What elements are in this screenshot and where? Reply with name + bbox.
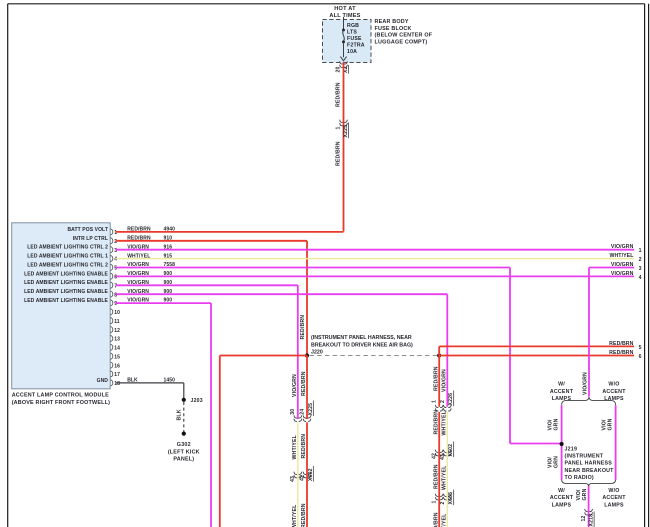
svg-text:HOT AT: HOT AT xyxy=(334,6,356,12)
svg-text:5: 5 xyxy=(639,345,642,351)
svg-text:LAMPS: LAMPS xyxy=(552,396,572,402)
svg-text:LAMPS: LAMPS xyxy=(604,502,624,508)
svg-text:(INSTRUMENT PANEL HARNESS, NEA: (INSTRUMENT PANEL HARNESS, NEAR xyxy=(311,335,412,341)
wire RED/BRN down from J220 xyxy=(306,356,308,420)
junction J220 xyxy=(305,353,309,357)
svg-text:VIO/GRN: VIO/GRN xyxy=(611,244,634,250)
svg-text:G302: G302 xyxy=(177,442,191,448)
wire pin4 WHT/YEL 915 xyxy=(116,258,635,260)
svg-text:LTS: LTS xyxy=(347,30,357,36)
svg-text:RED/BRN: RED/BRN xyxy=(301,371,307,396)
wire RED/BRN below X225 xyxy=(306,422,308,527)
svg-text:PANEL): PANEL) xyxy=(173,457,194,463)
svg-text:RED/BRN: RED/BRN xyxy=(433,410,439,435)
svg-text:TO RADIO): TO RADIO) xyxy=(565,475,594,481)
module pin 12 xyxy=(110,327,112,333)
svg-text:16: 16 xyxy=(114,363,120,369)
svg-text:RED/BRN: RED/BRN xyxy=(336,141,342,166)
svg-text:WHT/YEL: WHT/YEL xyxy=(442,410,448,435)
svg-text:W/O: W/O xyxy=(608,488,619,494)
wire VIO/GRN merged xyxy=(588,486,590,527)
svg-text:1: 1 xyxy=(432,400,438,403)
wire VIO/GRN to split xyxy=(589,267,634,269)
svg-text:W/O: W/O xyxy=(608,382,619,388)
svg-text:WHT/YEL: WHT/YEL xyxy=(609,253,634,259)
split brace upper xyxy=(562,397,616,405)
wire into fuse xyxy=(343,17,345,29)
border frame right outer xyxy=(648,4,650,527)
module pin 17 xyxy=(110,371,112,377)
svg-text:24: 24 xyxy=(299,409,305,415)
svg-text:W/: W/ xyxy=(558,488,565,494)
border frame right inner xyxy=(644,4,646,527)
wire RED/BRN down right xyxy=(438,356,440,407)
svg-text:X225: X225 xyxy=(308,403,314,416)
svg-text:LAMPS: LAMPS xyxy=(552,502,572,508)
svg-text:WHT/YEL: WHT/YEL xyxy=(442,513,448,527)
svg-text:ACCENT: ACCENT xyxy=(602,495,626,501)
junction on RED/BRN xyxy=(437,353,441,357)
svg-text:1: 1 xyxy=(432,500,438,503)
svg-text:VIO/GRN: VIO/GRN xyxy=(582,372,588,395)
svg-text:LED AMBIENT LIGHTING ENABLE: LED AMBIENT LIGHTING ENABLE xyxy=(24,271,108,277)
svg-text:ACCENT: ACCENT xyxy=(550,389,574,395)
svg-text:REAR BODY: REAR BODY xyxy=(375,19,409,25)
wire RED/BRN left arm xyxy=(220,355,307,357)
module pin 13 xyxy=(110,335,112,341)
svg-text:LED AMBIENT LIGHTING ENABLE: LED AMBIENT LIGHTING ENABLE xyxy=(24,289,108,295)
svg-text:8: 8 xyxy=(114,292,117,298)
svg-text:GND: GND xyxy=(97,378,109,384)
wire pin8 VIO/GRN 900 xyxy=(116,293,448,295)
fuse output arrow xyxy=(340,57,346,61)
svg-text:18: 18 xyxy=(114,381,120,387)
svg-text:13: 13 xyxy=(114,337,120,343)
svg-text:NEAR BREAKOUT: NEAR BREAKOUT xyxy=(565,468,615,474)
fuse F2TRA symbol xyxy=(342,29,345,32)
svg-text:BATT POS VOLT: BATT POS VOLT xyxy=(67,227,108,233)
svg-text:FUSE: FUSE xyxy=(347,36,362,42)
svg-text:RED/BRN: RED/BRN xyxy=(336,82,342,107)
svg-text:LED AMBIENT LIGHTING ENABLE: LED AMBIENT LIGHTING ENABLE xyxy=(24,298,108,304)
wire RED/BRN below X226 xyxy=(438,412,440,527)
wire pin1 RED/BRN 4940 xyxy=(116,231,344,233)
svg-text:J203: J203 xyxy=(191,398,203,404)
svg-text:3: 3 xyxy=(639,266,642,272)
svg-text:(LEFT KICK: (LEFT KICK xyxy=(168,449,200,455)
svg-text:J219: J219 xyxy=(565,446,578,452)
svg-text:20: 20 xyxy=(336,66,342,72)
wire RED/BRN from fuse xyxy=(343,62,345,231)
svg-text:1: 1 xyxy=(336,126,342,129)
wire VIO/GRN w/ accent branch xyxy=(561,405,563,480)
svg-text:ALL TIMES: ALL TIMES xyxy=(329,13,360,19)
svg-text:LED AMBIENT LIGHTING ENABLE: LED AMBIENT LIGHTING ENABLE xyxy=(24,280,108,286)
wire pin18 BLK 1450 xyxy=(116,382,184,384)
svg-text:RED/BRN: RED/BRN xyxy=(433,512,439,527)
svg-text:RED/BRN: RED/BRN xyxy=(433,366,439,391)
svg-text:X225: X225 xyxy=(343,125,349,138)
module pin 10 xyxy=(110,309,112,315)
svg-text:(INSTRUMENT: (INSTRUMENT xyxy=(565,454,604,460)
svg-text:J220: J220 xyxy=(311,350,323,356)
svg-text:X218: X218 xyxy=(589,514,595,527)
svg-text:VIO/GRN: VIO/GRN xyxy=(442,369,448,392)
wire BLK dashed to ground xyxy=(183,402,185,432)
svg-text:BLK: BLK xyxy=(177,409,183,420)
svg-text:INTR LP CTRL: INTR LP CTRL xyxy=(73,236,108,242)
junction J219 xyxy=(560,442,564,446)
ground G302 xyxy=(182,432,186,436)
border frame top xyxy=(8,3,645,5)
svg-text:1: 1 xyxy=(639,248,642,254)
svg-text:12: 12 xyxy=(581,515,587,521)
svg-text:VIO/GRN: VIO/GRN xyxy=(292,374,298,397)
svg-text:WHT/YEL: WHT/YEL xyxy=(292,434,298,459)
svg-text:GRN: GRN xyxy=(553,418,559,430)
svg-text:14: 14 xyxy=(114,346,120,352)
connector X602 right xyxy=(435,450,438,453)
module pin 14 xyxy=(110,344,112,350)
svg-text:X605: X605 xyxy=(448,492,454,505)
svg-text:2: 2 xyxy=(440,400,446,403)
svg-text:12: 12 xyxy=(114,328,120,334)
svg-text:17: 17 xyxy=(114,372,120,378)
wire pin2 RED/BRN 910 xyxy=(116,240,308,242)
svg-text:11: 11 xyxy=(114,319,120,325)
svg-text:VIO/GRN: VIO/GRN xyxy=(611,271,634,277)
svg-text:10: 10 xyxy=(114,310,120,316)
border frame left xyxy=(7,4,9,527)
svg-text:2: 2 xyxy=(114,239,117,245)
svg-text:RED/BRN: RED/BRN xyxy=(301,503,307,527)
svg-text:RED/BRN: RED/BRN xyxy=(300,315,306,340)
wire pin5 VIO/GRN 7558 xyxy=(116,267,511,269)
svg-text:LUGGAGE COMPT): LUGGAGE COMPT) xyxy=(375,39,428,45)
svg-text:RGB: RGB xyxy=(347,23,359,29)
wire WHT/YEL below X225 xyxy=(297,422,299,527)
svg-text:GRN: GRN xyxy=(607,418,613,430)
junction J203 xyxy=(182,398,186,402)
wire RED/BRN row6 xyxy=(439,355,634,357)
svg-text:RED/BRN: RED/BRN xyxy=(301,434,307,459)
svg-text:LED AMBIENT LIGHTING CTRL 2: LED AMBIENT LIGHTING CTRL 2 xyxy=(27,262,108,268)
connector X226 xyxy=(435,405,438,408)
svg-text:6: 6 xyxy=(114,275,117,281)
wire pin7 VIO/GRN 900 xyxy=(116,284,298,286)
svg-text:4: 4 xyxy=(114,257,117,263)
svg-text:W/: W/ xyxy=(558,382,565,388)
svg-text:X226: X226 xyxy=(448,393,454,406)
svg-text:3: 3 xyxy=(114,248,117,254)
wire pin3 VIO/GRN 916 xyxy=(116,249,635,251)
svg-text:LED AMBIENT LIGHTING CTRL 1: LED AMBIENT LIGHTING CTRL 1 xyxy=(27,254,108,260)
svg-text:4: 4 xyxy=(639,275,642,281)
accent lamp control module box xyxy=(12,223,111,389)
svg-text:WHT/YEL: WHT/YEL xyxy=(292,504,298,527)
connector X605 xyxy=(435,494,438,497)
svg-text:ACCENT: ACCENT xyxy=(602,389,626,395)
svg-text:6: 6 xyxy=(639,354,642,360)
module pin 15 xyxy=(110,353,112,359)
wire pin6 VIO/GRN 900 xyxy=(116,275,635,277)
svg-text:43: 43 xyxy=(290,476,296,482)
svg-text:RED/BRN: RED/BRN xyxy=(433,464,439,489)
svg-text:FUSE BLOCK: FUSE BLOCK xyxy=(375,26,412,32)
svg-text:PANEL HARNESS: PANEL HARNESS xyxy=(565,461,613,467)
svg-text:LED AMBIENT LIGHTING CTRL 2: LED AMBIENT LIGHTING CTRL 2 xyxy=(27,245,108,251)
svg-text:(BELOW CENTER OF: (BELOW CENTER OF xyxy=(375,33,433,39)
wire pin9 VIO/GRN 900 xyxy=(116,302,212,304)
svg-text:5: 5 xyxy=(114,266,117,272)
svg-text:X602: X602 xyxy=(448,444,454,457)
connector X225 (30/24) xyxy=(294,415,297,418)
connector X218 pin 12 xyxy=(585,509,588,512)
svg-text:(ABOVE RIGHT FRONT FOOTWELL): (ABOVE RIGHT FRONT FOOTWELL) xyxy=(12,400,110,406)
svg-text:7: 7 xyxy=(114,283,117,289)
module pin 11 xyxy=(110,318,112,324)
wire J220 dashed xyxy=(310,355,438,357)
svg-text:ACCENT LAMP CONTROL MODULE: ACCENT LAMP CONTROL MODULE xyxy=(12,393,109,399)
connector X225 pin 1 xyxy=(340,120,343,123)
module pin 16 xyxy=(110,362,112,368)
svg-text:F2TRA: F2TRA xyxy=(347,43,365,49)
wire RED/BRN row5 xyxy=(439,345,634,347)
fuse block box (dashed) xyxy=(323,20,372,63)
svg-text:GRN: GRN xyxy=(553,456,559,468)
svg-text:30: 30 xyxy=(290,409,296,415)
svg-text:9: 9 xyxy=(114,301,117,307)
wire VIO/GRN w/o accent branch xyxy=(615,405,617,480)
svg-text:WHT/YEL: WHT/YEL xyxy=(442,465,448,490)
svg-text:ACCENT: ACCENT xyxy=(550,495,574,501)
svg-text:15: 15 xyxy=(114,354,120,360)
merge brace lower xyxy=(562,480,616,487)
svg-text:X602: X602 xyxy=(308,468,314,481)
svg-text:2: 2 xyxy=(440,501,446,504)
svg-text:BREAKOUT TO DRIVER KNEE AIR BA: BREAKOUT TO DRIVER KNEE AIR BAG) xyxy=(311,342,413,348)
connector X602 left xyxy=(294,472,297,475)
connector pin 20 fuse block xyxy=(340,61,343,64)
svg-text:GRN: GRN xyxy=(582,488,588,500)
svg-text:2: 2 xyxy=(639,257,642,263)
svg-text:10A: 10A xyxy=(347,49,357,55)
wire WHT/YEL below X226 xyxy=(446,412,448,527)
